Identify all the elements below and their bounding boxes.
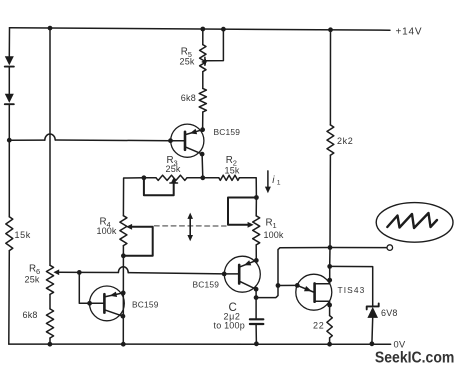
wire Q1 collector to R3 node bbox=[201, 154, 204, 178]
wire left column bbox=[8, 28, 10, 57]
wire riser to output line bbox=[278, 248, 330, 286]
svg-text:25k: 25k bbox=[25, 275, 40, 285]
wire second column bbox=[49, 28, 51, 265]
svg-text:BC159: BC159 bbox=[193, 279, 220, 289]
resistor 22 bbox=[327, 316, 332, 338]
svg-text:15k: 15k bbox=[15, 230, 31, 240]
svg-text:2k2: 2k2 bbox=[337, 136, 353, 146]
wire Q2 collector node and branch bbox=[255, 289, 257, 297]
potentiometer R4 100k bbox=[120, 216, 127, 246]
transistor Q2 BC159 bbox=[224, 256, 260, 292]
resistor 2k2 bbox=[327, 125, 334, 155]
resistor 6k8 upper bbox=[199, 88, 206, 112]
svg-text:6V8: 6V8 bbox=[381, 308, 398, 318]
svg-text:BC159: BC159 bbox=[132, 299, 159, 309]
zener diode 6V8 bbox=[367, 303, 379, 343]
svg-text:100k: 100k bbox=[97, 226, 117, 236]
sawtooth waveform bbox=[387, 213, 437, 228]
double-headed adjust arrow bbox=[189, 217, 191, 238]
R3 wiper arm loop bbox=[144, 178, 174, 195]
wire 2k2 column bbox=[329, 30, 331, 125]
wire top +14V rail bbox=[10, 28, 391, 30]
wire R6 wiper to Q2 base with hop bbox=[56, 271, 79, 273]
waveform symbol ellipse bbox=[376, 203, 453, 243]
resistor R6 25k bbox=[46, 265, 53, 294]
potentiometer R1 100k bbox=[255, 198, 257, 216]
svg-text:to 100p: to 100p bbox=[214, 321, 245, 331]
wire bottom 0V rail bbox=[9, 343, 391, 345]
wire UJT emitter lead bbox=[278, 284, 297, 286]
resistor R2 15k bbox=[203, 177, 219, 179]
R1 wiper arm loop bbox=[228, 198, 256, 225]
wire R4 top riser bbox=[123, 178, 143, 216]
R4 wiper arm loop bbox=[123, 227, 152, 256]
svg-text:0V: 0V bbox=[394, 339, 406, 349]
diode D1 bbox=[5, 56, 14, 65]
capacitor C plates bbox=[250, 318, 263, 320]
R5 wiper arm bbox=[205, 29, 223, 61]
transistor Q1 BC159 bbox=[171, 124, 204, 157]
svg-text:25k: 25k bbox=[166, 164, 181, 174]
svg-text:25k: 25k bbox=[180, 57, 195, 67]
svg-text:TIS43: TIS43 bbox=[338, 285, 366, 295]
resistor 15k bbox=[6, 217, 13, 251]
wire Q3 base riser bbox=[79, 272, 89, 303]
dashed gang line bbox=[155, 225, 227, 227]
svg-text:SeekIC.com: SeekIC.com bbox=[375, 350, 455, 367]
svg-text:1: 1 bbox=[273, 221, 278, 230]
output terminal bbox=[387, 245, 393, 251]
svg-text:BC159: BC159 bbox=[214, 127, 241, 137]
wire to capacitor C bbox=[255, 298, 257, 319]
wire output node to zener node bbox=[329, 248, 331, 267]
svg-text:+14V: +14V bbox=[396, 26, 423, 37]
current arrow i1 bbox=[267, 171, 269, 189]
wire diode node to Q1 base with hop bbox=[9, 139, 45, 141]
wire R5 column top bbox=[202, 29, 204, 45]
svg-text:6k8: 6k8 bbox=[181, 93, 196, 103]
svg-text:100k: 100k bbox=[264, 230, 284, 240]
transistor Q4 TIS43 UJT bbox=[296, 266, 332, 315]
svg-text:15k: 15k bbox=[225, 166, 240, 176]
svg-text:22: 22 bbox=[313, 321, 325, 331]
svg-text:6k8: 6k8 bbox=[23, 310, 38, 320]
potentiometer R3 25k bbox=[144, 177, 156, 179]
transistor Q3 BC159 bbox=[90, 286, 125, 321]
wire zener branch bbox=[330, 266, 373, 306]
diode D2 bbox=[5, 94, 14, 103]
wire R4 bottom column to 0V bbox=[122, 256, 124, 344]
resistor 6k8 lower bbox=[46, 309, 53, 338]
potentiometer R5 25k bbox=[200, 45, 206, 72]
wire output line to terminal bbox=[330, 247, 387, 249]
svg-text:1: 1 bbox=[277, 180, 281, 187]
R6 wiper arrow bbox=[53, 269, 59, 275]
